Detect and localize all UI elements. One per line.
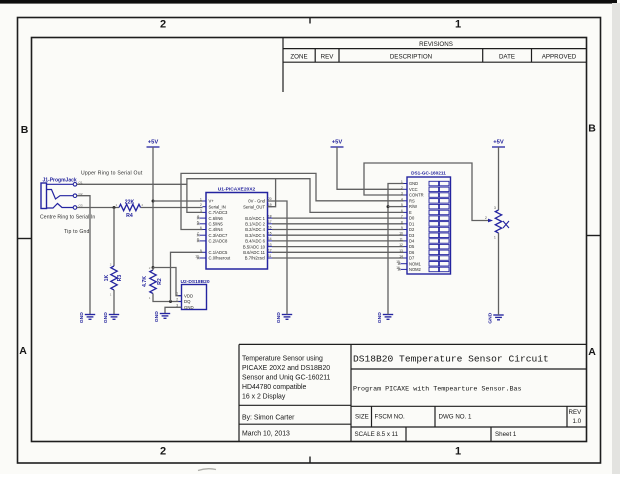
svg-text:2: 2 xyxy=(401,186,403,190)
svg-text:C.0/hserout: C.0/hserout xyxy=(209,256,231,261)
ground LCD xyxy=(383,315,393,320)
svg-text:B.4/ADC 6: B.4/ADC 6 xyxy=(245,239,265,244)
svg-text:DQ: DQ xyxy=(184,299,191,304)
wire pot bottom to ground xyxy=(498,233,500,315)
svg-text:Serial_OUT: Serial_OUT xyxy=(243,204,265,209)
wire R4 to U1 Serial_IN pin 2 xyxy=(141,207,203,209)
svg-text:HD44780 compatible: HD44780 compatible xyxy=(242,384,307,391)
pot wiper arrowhead xyxy=(488,219,493,223)
resistor R3 1K xyxy=(111,266,117,290)
svg-text:14: 14 xyxy=(268,237,272,241)
junction node R/W gnd xyxy=(387,205,390,208)
svg-text:C.6/IN6: C.6/IN6 xyxy=(209,216,224,221)
svg-text:Tip to Gnd: Tip to Gnd xyxy=(64,229,90,235)
svg-text:1: 1 xyxy=(401,180,403,184)
svg-text:Program PICAXE with Tempeartur: Program PICAXE with Tempearture Sensor.B… xyxy=(353,386,522,394)
svg-text:DATE: DATE xyxy=(499,54,515,61)
svg-text:16: 16 xyxy=(268,226,272,230)
wire +5V to pot top xyxy=(498,147,500,210)
svg-text:C.1/ADC5: C.1/ADC5 xyxy=(209,250,229,255)
svg-text:Temperature Sensor using: Temperature Sensor using xyxy=(242,356,323,363)
zone tick top xyxy=(309,18,311,24)
wire data D1 xyxy=(272,223,404,225)
wire junction down to R3 xyxy=(113,208,115,267)
wire C.4 loop H1 to LCD RS xyxy=(181,173,404,229)
svg-text:14: 14 xyxy=(399,255,403,259)
zone tick left xyxy=(18,238,32,240)
svg-text:17: 17 xyxy=(268,220,272,224)
svg-text:3: 3 xyxy=(494,206,496,210)
svg-text:March 10, 2013: March 10, 2013 xyxy=(242,431,290,438)
svg-text:B: B xyxy=(21,124,29,136)
wire U1 C.1 to DQ xyxy=(171,252,203,301)
svg-text:6: 6 xyxy=(401,209,403,213)
svg-text:2: 2 xyxy=(485,216,487,220)
title block size/fscm/dwg/rev row xyxy=(355,409,583,438)
junction node serial-in divider xyxy=(113,206,116,209)
svg-text:9: 9 xyxy=(200,249,202,253)
svg-text:12: 12 xyxy=(268,249,272,253)
svg-text:FSCM NO.: FSCM NO. xyxy=(375,414,406,421)
svg-text:CONTR: CONTR xyxy=(409,193,424,198)
svg-text:DESCRIPTION: DESCRIPTION xyxy=(390,54,432,61)
svg-text:REV: REV xyxy=(569,409,583,416)
svg-text:B.5/ADC 10: B.5/ADC 10 xyxy=(243,244,266,249)
svg-text:A: A xyxy=(588,346,596,358)
svg-text:SIZE: SIZE xyxy=(355,414,369,421)
wire data D7 xyxy=(272,257,404,259)
ground pot xyxy=(493,315,503,320)
svg-text:1: 1 xyxy=(200,198,202,202)
svg-text:RS: RS xyxy=(409,198,415,203)
svg-text:GND: GND xyxy=(103,312,109,323)
svg-text:R2: R2 xyxy=(157,278,163,285)
svg-text:B.2/ADC 4: B.2/ADC 4 xyxy=(245,227,265,232)
zone tick right xyxy=(587,235,601,237)
U1 right pin labels xyxy=(243,199,266,261)
wire U1 0V pin to ground xyxy=(268,201,288,315)
wire +5V rail down xyxy=(152,147,154,268)
svg-text:D2: D2 xyxy=(409,227,415,232)
svg-text:Serial_IN: Serial_IN xyxy=(209,204,226,209)
inner border frame xyxy=(32,38,587,442)
svg-text:NOM2: NOM2 xyxy=(409,267,422,272)
svg-text:2: 2 xyxy=(176,298,178,302)
svg-text:R/W: R/W xyxy=(409,204,417,209)
svg-text:16 x 2 Display: 16 x 2 Display xyxy=(242,394,286,401)
svg-text:1: 1 xyxy=(494,236,496,240)
revisions table xyxy=(283,38,587,93)
wire R3 to gnd xyxy=(113,290,115,315)
resistor R4 22K xyxy=(119,204,140,210)
svg-text:R3: R3 xyxy=(117,275,123,282)
U1 left pin stubs and numbers xyxy=(195,198,206,260)
svg-text:DS18B20 Temperature Sensor Cir: DS18B20 Temperature Sensor Circuit xyxy=(353,354,549,365)
wire data D0 xyxy=(272,217,404,219)
svg-text:GND: GND xyxy=(79,312,85,323)
svg-text:13: 13 xyxy=(399,249,403,253)
ground R3 xyxy=(109,315,119,320)
scan artifact dash bottom xyxy=(198,469,216,471)
svg-text:V+: V+ xyxy=(209,199,215,204)
svg-text:D1: D1 xyxy=(409,221,415,226)
svg-text:1: 1 xyxy=(455,446,461,458)
DS1 connector pin grid cells xyxy=(429,181,449,271)
connector J1 ProgmJack xyxy=(41,180,83,209)
svg-text:8: 8 xyxy=(401,220,403,224)
svg-text:U2-DS18B20: U2-DS18B20 xyxy=(181,279,210,285)
svg-text:Sheet 1: Sheet 1 xyxy=(495,431,517,438)
zone tick bottom xyxy=(309,457,311,464)
title block borders xyxy=(239,344,587,441)
svg-text:18: 18 xyxy=(268,214,272,218)
svg-text:B.3/ADC 5: B.3/ADC 5 xyxy=(245,233,265,238)
wire +5V to LCD VCC xyxy=(337,147,404,189)
wire data D2 xyxy=(272,229,404,231)
wire LCD R/W to rail xyxy=(388,206,404,208)
svg-text:4: 4 xyxy=(401,197,403,201)
junction node R2 top xyxy=(152,266,155,269)
wire U2 gnd pin to ground xyxy=(165,307,182,313)
svg-text:+5V: +5V xyxy=(493,140,504,146)
DS1 pin labels xyxy=(409,181,424,272)
svg-text:12: 12 xyxy=(399,243,403,247)
svg-text:Sensor and Uniq GC-160211: Sensor and Uniq GC-160211 xyxy=(242,375,331,382)
svg-text:1: 1 xyxy=(455,19,461,31)
DS1 pin stubs and numbers xyxy=(396,180,407,271)
svg-text:D5: D5 xyxy=(409,244,415,249)
svg-text:B.6/ADC 11: B.6/ADC 11 xyxy=(243,250,265,255)
svg-text:1.0: 1.0 xyxy=(573,418,582,425)
svg-text:10: 10 xyxy=(399,232,403,236)
svg-text:C.5/IN5: C.5/IN5 xyxy=(209,222,224,227)
svg-text:A: A xyxy=(19,345,27,357)
svg-text:PICAXE 20X2 and DS18B20: PICAXE 20X2 and DS18B20 xyxy=(242,365,330,372)
svg-text:GND: GND xyxy=(184,305,194,310)
scan right edge band xyxy=(612,3,620,474)
ground jack sleeve xyxy=(85,315,95,320)
svg-text:B.7/hi2cscl: B.7/hi2cscl xyxy=(245,256,265,261)
svg-text:B.0/ADC 1: B.0/ADC 1 xyxy=(245,216,265,221)
svg-text:VCC: VCC xyxy=(409,187,418,192)
svg-text:SCALE 8.5 x 11: SCALE 8.5 x 11 xyxy=(355,431,399,438)
svg-text:REVISIONS: REVISIONS xyxy=(419,41,453,48)
svg-text:GND: GND xyxy=(276,312,282,323)
svg-text:Centre Ring to Serial In: Centre Ring to Serial In xyxy=(40,215,95,221)
svg-text:0V - Gnd: 0V - Gnd xyxy=(248,199,265,204)
ground U2 xyxy=(160,314,170,319)
IC U1 PICAXE20X2 body xyxy=(206,193,268,270)
scan top black bar xyxy=(0,0,617,4)
wire data D6 xyxy=(272,251,404,253)
resistor terminal pin marks xyxy=(110,203,151,300)
potentiometer R1 contrast xyxy=(495,210,501,233)
svg-text:APPROVED: APPROVED xyxy=(542,54,577,61)
svg-text:7: 7 xyxy=(401,215,403,219)
wire pot wiper to LCD CONTR xyxy=(364,163,489,221)
svg-text:2: 2 xyxy=(160,19,166,31)
junction node V+ supply xyxy=(152,200,155,203)
svg-text:15: 15 xyxy=(268,231,272,235)
svg-text:E: E xyxy=(409,210,412,215)
svg-text:D0: D0 xyxy=(409,216,415,221)
pot designator mark xyxy=(503,221,509,228)
svg-text:4.7K: 4.7K xyxy=(142,276,148,287)
svg-text:By: Simon Carter: By: Simon Carter xyxy=(242,415,295,422)
revisions table header text xyxy=(290,41,576,61)
svg-text:22K: 22K xyxy=(125,200,135,206)
svg-text:REV: REV xyxy=(321,54,335,61)
U1 right pin stubs and numbers xyxy=(268,197,273,258)
connector DS1 GC-160211 LCD body xyxy=(407,177,451,274)
U1 left pin labels xyxy=(209,199,231,261)
svg-text:+5V: +5V xyxy=(332,140,343,146)
svg-text:11: 11 xyxy=(268,254,272,258)
wire serial-out loop H2 xyxy=(187,179,276,213)
title block description text xyxy=(242,356,331,438)
wire data D5 xyxy=(272,246,404,248)
wire LCD GND pin rail xyxy=(388,184,404,315)
wire +5V branch to U2 VDD xyxy=(153,268,182,296)
svg-text:+5V: +5V xyxy=(148,140,159,146)
svg-text:B: B xyxy=(588,123,596,135)
svg-text:13: 13 xyxy=(268,243,272,247)
resistor R2 4.7K xyxy=(150,270,156,294)
svg-text:DWG NO. 1: DWG NO. 1 xyxy=(439,414,473,421)
svg-text:U1-PICAXE20X2: U1-PICAXE20X2 xyxy=(218,187,256,193)
svg-text:11: 11 xyxy=(399,237,403,241)
svg-text:R4: R4 xyxy=(126,213,133,219)
svg-text:GND: GND xyxy=(409,181,418,186)
wire data D3 xyxy=(272,234,404,236)
svg-text:GND: GND xyxy=(377,312,383,323)
svg-text:D6: D6 xyxy=(409,250,415,255)
wire jack middle ring to gnd xyxy=(77,196,90,315)
svg-text:D4: D4 xyxy=(409,239,415,244)
svg-text:D3: D3 xyxy=(409,233,415,238)
svg-text:GND: GND xyxy=(487,312,493,323)
svg-text:5: 5 xyxy=(401,203,403,207)
svg-text:1: 1 xyxy=(176,292,178,296)
wire R2 bottom to DQ line xyxy=(153,294,182,302)
svg-text:ZONE: ZONE xyxy=(290,54,307,61)
svg-text:Upper Ring to Serial Out: Upper Ring to Serial Out xyxy=(81,171,143,177)
svg-text:2: 2 xyxy=(200,203,202,207)
svg-text:VDD: VDD xyxy=(184,293,193,298)
svg-text:C.2/ADC8: C.2/ADC8 xyxy=(209,239,229,244)
wire jack top ring to serial-out loop xyxy=(77,183,187,185)
IC U2 DS18B20 xyxy=(176,285,206,311)
svg-text:B.1/ADC 2: B.1/ADC 2 xyxy=(245,222,265,227)
svg-text:C.7/ADC3: C.7/ADC3 xyxy=(209,210,229,215)
svg-text:3: 3 xyxy=(401,192,403,196)
svg-text:9: 9 xyxy=(401,226,403,230)
wire V+ to U1 pin 1 xyxy=(153,200,203,202)
ground U1 0V xyxy=(282,315,292,320)
svg-text:1K: 1K xyxy=(104,274,110,281)
wire data D4 xyxy=(272,240,404,242)
svg-text:GND: GND xyxy=(154,311,160,322)
svg-text:D7: D7 xyxy=(409,256,415,261)
svg-text:DS1-GC-160211: DS1-GC-160211 xyxy=(411,171,446,176)
wire serial-out loop H2 to LCD E xyxy=(276,179,404,213)
svg-text:NOM1: NOM1 xyxy=(409,261,422,266)
wire R2 top lead xyxy=(152,268,154,271)
svg-text:C.4/IN4: C.4/IN4 xyxy=(209,227,224,232)
svg-text:2: 2 xyxy=(160,446,166,458)
wire jack bottom to R4 junction xyxy=(77,207,119,209)
svg-text:J1-ProgmJack: J1-ProgmJack xyxy=(43,178,77,184)
svg-text:C.3/ADC7: C.3/ADC7 xyxy=(209,233,229,238)
junction node DQ xyxy=(169,300,172,303)
